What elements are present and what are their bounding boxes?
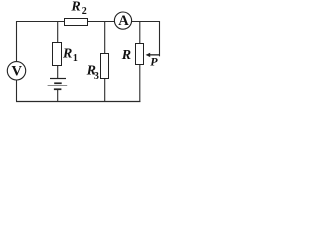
label R1 [62, 47, 78, 64]
wire left border (voltmeter branch) [16, 21, 18, 102]
wire R3 branch upper [104, 21, 106, 55]
svg-text:P: P [150, 54, 158, 68]
wire rheostat branch lower [139, 64, 141, 102]
voltmeter V [7, 62, 25, 80]
svg-text:3: 3 [94, 71, 99, 82]
wiper arrow of rheostat [146, 53, 160, 57]
wire top bus [16, 21, 160, 23]
resistor R3 [101, 54, 109, 79]
svg-text:A: A [118, 13, 129, 29]
label R3 [86, 63, 99, 82]
resistor R1 [53, 43, 62, 66]
battery B [48, 79, 68, 91]
svg-text:1: 1 [73, 53, 78, 64]
svg-text:R: R [70, 0, 80, 14]
ammeter A [114, 12, 131, 29]
wire right border (top corner to wiper junction) [159, 21, 161, 56]
svg-text:R: R [62, 47, 72, 62]
wire R3 branch lower [104, 78, 106, 102]
svg-text:2: 2 [82, 6, 87, 17]
label R2 [70, 0, 86, 17]
svg-text:R: R [121, 48, 131, 63]
wire rheostat branch upper [139, 21, 141, 45]
wire battery to bottom bus [57, 90, 59, 102]
wire bottom bus [16, 101, 140, 103]
resistor R2 [65, 19, 88, 26]
wire R1 to battery [57, 65, 59, 79]
svg-text:V: V [12, 63, 23, 79]
wire R1/battery branch upper [57, 21, 59, 44]
rheostat R [136, 44, 144, 65]
